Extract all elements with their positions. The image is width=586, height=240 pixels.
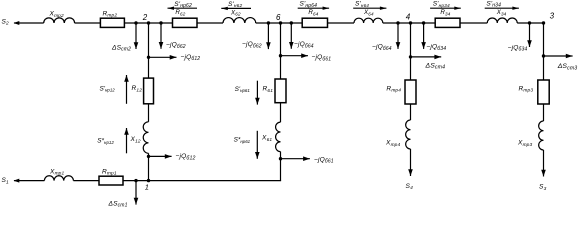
inductor X62	[223, 18, 256, 23]
shunt arrow -jQb61 bottom of branch 61	[281, 158, 310, 160]
wire Rtr4 to Xtr4	[410, 104, 412, 120]
junction dot right of node 2	[159, 21, 162, 24]
resistor R64	[302, 18, 327, 27]
node 4	[409, 21, 412, 24]
svg-text:−jQб34: −jQб34	[426, 43, 446, 51]
flow arrow S"nr61 down beside X61	[256, 131, 258, 159]
inductor Xtr1	[44, 176, 73, 181]
inductor Xtr4	[406, 120, 411, 149]
svg-text:6: 6	[276, 13, 281, 22]
resistor Rtr4	[405, 80, 416, 104]
svg-text:Rтр4: Rтр4	[386, 85, 401, 93]
svg-text:R61: R61	[263, 86, 274, 94]
junction dot for dSst1	[134, 179, 137, 182]
inductor X12	[143, 122, 148, 154]
svg-text:R12: R12	[132, 85, 143, 93]
node 1	[147, 179, 150, 182]
svg-text:X12: X12	[130, 136, 141, 144]
svg-text:S3: S3	[539, 184, 547, 192]
tap arrow dSst4	[411, 56, 442, 58]
svg-text:2: 2	[142, 13, 148, 22]
svg-text:S1: S1	[2, 177, 10, 185]
svg-text:S'нр64: S'нр64	[300, 1, 318, 9]
wire node2 down to R12	[148, 23, 150, 78]
svg-text:3: 3	[550, 12, 555, 21]
svg-text:−jQб64: −jQб64	[372, 43, 392, 51]
shunt arrow -jQb62 at node 2	[160, 23, 162, 49]
wire: bottom bus from S1 arrow to branch 61 corner	[14, 180, 44, 182]
resistor Rtr3	[538, 80, 549, 104]
svg-text:ΔSст3: ΔSст3	[557, 63, 578, 71]
wire node3 down to Rtr3	[543, 23, 545, 80]
junction dot left of node 3	[528, 21, 531, 24]
svg-text:Xтр2: Xтр2	[49, 11, 64, 19]
junction dot on branch 12 top	[147, 56, 150, 59]
junction dot bottom of branch 61	[279, 157, 282, 160]
svg-text:S*нр12: S*нр12	[97, 138, 114, 145]
svg-text:ΔSст4: ΔSст4	[425, 62, 446, 70]
svg-text:S'н62: S'н62	[228, 1, 242, 9]
inductor X34	[487, 18, 517, 23]
arrow to S2 (left end of top bus)	[14, 21, 20, 25]
node 2	[147, 21, 150, 24]
shunt arrow -jQb34 at node 3	[529, 23, 531, 47]
svg-text:−jQб62: −jQб62	[166, 42, 186, 50]
node 6	[279, 21, 282, 24]
junction dot right of node 4	[422, 21, 425, 24]
resistor Rtr2	[100, 18, 124, 27]
svg-text:4: 4	[406, 12, 411, 21]
resistor R12	[144, 78, 154, 104]
svg-text:−jQб61: −jQб61	[314, 156, 334, 164]
svg-text:1: 1	[145, 182, 149, 191]
svg-text:Rтр1: Rтр1	[102, 168, 117, 176]
svg-text:ΔSст1: ΔSст1	[108, 200, 128, 208]
flow arrow S"nr12 up beside X12	[126, 128, 128, 153]
flow arrow S'nr61 down beside R61	[256, 81, 258, 105]
junction dot below node 3	[542, 54, 545, 57]
svg-text:−jQб12: −jQб12	[176, 153, 196, 161]
junction dot on branch 61 top	[279, 54, 282, 57]
svg-text:R64: R64	[308, 9, 318, 16]
svg-text:Rтр3: Rтр3	[519, 85, 534, 93]
flow label S'nr62 with left arrow over R62	[168, 7, 198, 9]
wire X12 to node 1	[148, 153, 150, 180]
shunt arrow -jQb64 at node 6	[290, 23, 292, 49]
svg-text:Xтр3: Xтр3	[517, 139, 532, 147]
svg-text:Rтр2: Rтр2	[103, 10, 118, 18]
svg-text:S'нр61: S'нр61	[235, 86, 251, 93]
inductor Xtr2	[44, 18, 75, 23]
svg-text:X64: X64	[363, 9, 374, 16]
resistor R34	[435, 18, 460, 27]
wire node6 down to R61	[280, 23, 282, 79]
arrow to S4 load	[410, 149, 412, 176]
wire: top bus from S2 arrow to node 3	[14, 22, 44, 24]
tap arrow dSst3	[544, 55, 573, 57]
svg-text:S'нр62: S'нр62	[174, 1, 192, 9]
wire R61 to X61	[280, 103, 282, 122]
svg-text:−jQб64: −jQб64	[294, 41, 314, 49]
inductor X61	[276, 122, 281, 151]
flow label S'nr64 with right arrow over R64	[298, 7, 329, 9]
flow label S'nr34 with right arrow over R34	[430, 7, 461, 9]
wire node4 down to Rtr4	[410, 23, 412, 80]
svg-text:Xтр4: Xтр4	[385, 139, 400, 147]
svg-text:S'н64: S'н64	[355, 1, 369, 8]
inductor Xtr3	[539, 121, 544, 150]
svg-text:X62: X62	[230, 9, 241, 16]
inductor X64	[354, 18, 383, 23]
svg-text:R62: R62	[175, 9, 185, 16]
svg-text:−jQб12: −jQб12	[181, 54, 201, 62]
shunt arrow -jQb61 top of branch 61	[281, 55, 309, 57]
svg-text:S'нр34: S'нр34	[433, 1, 450, 9]
junction dot below node 4	[409, 55, 412, 58]
flow label S'n62 with left arrow over X62	[221, 7, 251, 9]
shunt arrow -jQb64 at node 4	[397, 23, 399, 49]
resistor R62	[173, 18, 198, 27]
svg-text:R34: R34	[440, 9, 450, 16]
shunt arrow -jQb12 top of branch 12	[149, 56, 177, 58]
flow label S'n64 with right arrow over X64	[353, 7, 386, 9]
svg-text:S*нр61: S*нр61	[234, 137, 251, 144]
svg-text:S'н34: S'н34	[486, 1, 501, 9]
shunt arrow -jQb34 at node 4	[423, 23, 425, 49]
arrow to S1 (left end of bottom bus)	[14, 179, 20, 183]
svg-text:S2: S2	[2, 18, 10, 26]
wire branch61 down to bottom bus corner	[280, 152, 282, 181]
shunt arrow dSst2 at node 2	[135, 23, 137, 49]
shunt arrow dSst1	[135, 181, 137, 205]
junction dot right of node 6	[290, 21, 293, 24]
svg-text:−jQб34: −jQб34	[508, 44, 528, 52]
shunt arrow -jQb62 at node 6	[267, 23, 269, 49]
svg-text:Xтр1: Xтр1	[49, 168, 64, 176]
svg-text:−jQб62: −jQб62	[242, 41, 262, 49]
junction dot left of node 2	[134, 21, 137, 24]
node 3	[542, 21, 545, 24]
svg-text:X61: X61	[261, 135, 272, 143]
svg-text:ΔSст2: ΔSст2	[111, 44, 131, 52]
wire R12 to X12	[148, 104, 150, 122]
resistor R61	[275, 79, 286, 103]
svg-text:X34: X34	[496, 9, 507, 16]
junction dot left of node 6	[267, 21, 270, 24]
svg-text:−jQб61: −jQб61	[312, 54, 332, 62]
resistor Rtr1	[99, 176, 123, 185]
shunt arrow -jQb12 bottom of branch 12	[149, 155, 172, 157]
arrow to S3 load	[543, 150, 545, 177]
svg-text:S4: S4	[406, 183, 414, 191]
flow label S'n34 with right arrow over X34	[485, 7, 519, 9]
wire Rtr3 to Xtr3	[543, 104, 545, 121]
svg-text:S'нр12: S'нр12	[100, 85, 116, 92]
junction dot bottom of branch 12	[147, 155, 150, 158]
junction dot left of node 4	[396, 21, 399, 24]
flow arrow S'nr12 up beside R12	[126, 75, 128, 104]
